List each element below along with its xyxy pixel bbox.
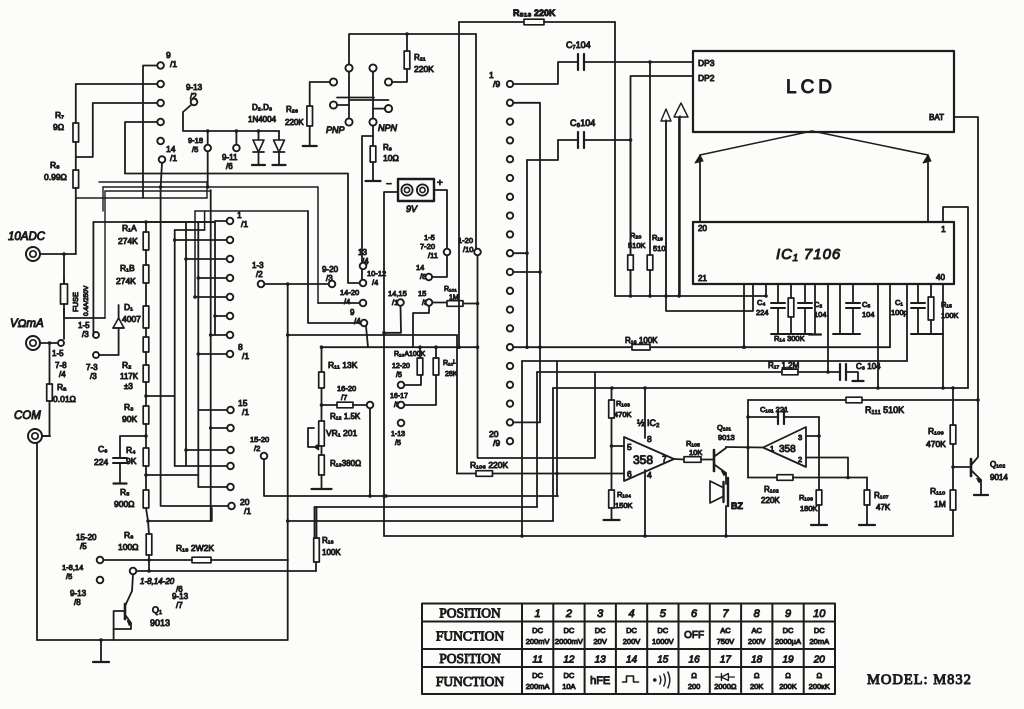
svg-text:DC: DC	[532, 626, 543, 635]
svg-text:DC: DC	[563, 671, 574, 680]
wire x318 drop	[317, 187, 319, 303]
svg-text:R₁₀₂: R₁₀₂	[764, 485, 779, 494]
svg-text:14,15: 14,15	[388, 289, 407, 298]
svg-text:/4: /4	[344, 297, 350, 306]
wire pin21 stub	[765, 284, 767, 296]
svg-text:4: 4	[647, 470, 652, 480]
contact 9-11/6	[233, 145, 240, 152]
svg-text:C₅: C₅	[862, 300, 870, 309]
ground bar under C1 R15	[911, 333, 943, 335]
svg-text:20: 20	[698, 224, 707, 233]
jack COM	[28, 429, 42, 443]
wire chain top y222	[125, 221, 215, 223]
wire pin5	[612, 445, 625, 447]
svg-text:2000µA: 2000µA	[775, 637, 801, 646]
svg-text:21: 21	[698, 274, 707, 283]
wire BAT to right vertical	[954, 117, 978, 400]
svg-text:200: 200	[688, 682, 701, 691]
svg-text:AC: AC	[751, 626, 762, 635]
wire bank3 stub	[211, 427, 228, 429]
jack 10ADC	[26, 247, 40, 261]
svg-text:6: 6	[691, 608, 698, 620]
switch contact bank1	[157, 100, 164, 107]
resistor R102 220K	[777, 475, 793, 481]
wire IC1 pin stub x878 to y388	[877, 284, 879, 388]
svg-text:7: 7	[722, 608, 729, 620]
svg-text:11: 11	[532, 655, 542, 666]
svg-text:R₂: R₂	[122, 360, 131, 370]
switch contact bank2	[227, 351, 234, 358]
wire x650 down (R19 feed)	[649, 62, 651, 255]
wire IC1 pin stub x815	[814, 284, 816, 334]
table positions/functions	[422, 604, 835, 695]
wire mesh y182	[99, 181, 207, 183]
switch contact 14/1	[159, 156, 166, 163]
wire top rail to x459	[475, 34, 477, 249]
svg-text:274K: 274K	[116, 276, 136, 286]
wire pin2 loop	[806, 458, 848, 478]
svg-text:R₁₀₅: R₁₀₅	[686, 439, 700, 448]
svg-text:1-8,14-20: 1-8,14-20	[140, 577, 175, 586]
svg-text:R₂₀: R₂₀	[630, 231, 641, 240]
switch contact bank3	[227, 484, 234, 491]
op-amp IC2a triangle	[624, 437, 674, 481]
svg-text:Ω: Ω	[691, 671, 697, 680]
wire x819 down	[818, 417, 820, 490]
table row2 functions	[526, 626, 829, 646]
svg-text:BAT: BAT	[929, 113, 944, 122]
switch contact col9	[507, 250, 513, 256]
svg-text:16-17: 16-17	[390, 393, 408, 400]
switch contact 15/1	[227, 407, 234, 414]
svg-text:DC: DC	[657, 626, 668, 635]
switch contact bank2	[227, 275, 234, 282]
svg-text:1-5: 1-5	[424, 233, 435, 242]
svg-text:15-20: 15-20	[76, 533, 97, 542]
svg-text:2000Ω: 2000Ω	[714, 682, 737, 691]
wire 9/4 left from x308	[308, 211, 361, 323]
wire y190 fuse feed	[105, 191, 211, 318]
battery 9V	[398, 179, 434, 201]
svg-text:9-20: 9-20	[322, 265, 339, 274]
svg-text:9-18: 9-18	[188, 136, 203, 145]
wire C101 loop left	[747, 400, 749, 478]
svg-text:FUSE: FUSE	[71, 292, 80, 312]
svg-text:900Ω: 900Ω	[114, 499, 135, 509]
svg-text:/2: /2	[254, 444, 260, 453]
svg-text:/7: /7	[341, 393, 347, 402]
svg-text:R₁B: R₁B	[120, 263, 135, 273]
svg-text:9K: 9K	[126, 456, 137, 466]
svg-text:R₁₀₁: R₁₀₁	[444, 286, 457, 293]
svg-text:/4: /4	[372, 278, 378, 287]
svg-text:IC₁ 7106: IC₁ 7106	[776, 246, 841, 263]
svg-text:9013: 9013	[718, 433, 735, 442]
switch contact bank3	[228, 503, 235, 510]
switch contact 1/1	[227, 218, 234, 225]
svg-text:R₁₆: R₁₆	[322, 536, 334, 545]
svg-text:R₄: R₄	[126, 445, 136, 455]
svg-text:200κK: 200κK	[809, 682, 830, 691]
svg-text:R₂₆: R₂₆	[286, 105, 298, 114]
switch contact col9	[507, 363, 513, 369]
wire mesh y211	[102, 187, 104, 211]
svg-text:7-8: 7-8	[55, 361, 67, 370]
svg-text:R₁₀₇: R₁₀₇	[874, 491, 889, 500]
svg-text:R₁₀₈: R₁₀₈	[799, 493, 813, 502]
svg-text:104: 104	[862, 310, 875, 319]
wire fuse node down to VΩmA contact	[63, 309, 65, 339]
svg-text:NPN: NPN	[378, 123, 398, 133]
wire mesh vertical x174	[174, 230, 176, 396]
svg-text:1: 1	[535, 608, 541, 620]
wire IC1 pin stub x828 to R17 line	[827, 284, 829, 372]
LCD-IC1 bus left diagonal	[700, 131, 812, 155]
svg-text:7-20: 7-20	[420, 242, 435, 251]
diode D3	[278, 131, 280, 140]
wire col9-2 down x540	[513, 103, 540, 423]
wire x287 down long	[287, 284, 289, 640]
wire R21 to socket	[392, 69, 407, 82]
svg-text:R₂₁: R₂₁	[414, 53, 426, 62]
wire x527	[526, 160, 528, 347]
sound symbol cell 15	[653, 678, 657, 682]
wire pin8	[644, 388, 646, 438]
svg-text:220K: 220K	[285, 118, 304, 127]
svg-text:/1: /1	[244, 506, 251, 516]
contact 7-3/3	[93, 352, 99, 358]
switch contact bank2	[227, 332, 234, 339]
svg-text:/2: /2	[256, 270, 263, 279]
svg-text:20V: 20V	[594, 637, 607, 646]
svg-text:DC: DC	[595, 626, 606, 635]
svg-text:180K: 180K	[800, 504, 818, 513]
svg-text:1-8,14: 1-8,14	[62, 563, 83, 572]
wire rail y361	[522, 360, 907, 362]
svg-text:/3: /3	[82, 330, 89, 339]
wire 14/8 right up	[432, 255, 447, 277]
wire rail y388	[553, 387, 968, 389]
svg-text:200V: 200V	[623, 637, 641, 646]
svg-text:1-5: 1-5	[78, 321, 90, 330]
svg-text:R₁₀ᴸ: R₁₀ᴸ	[443, 360, 456, 367]
potentiometer VR1 201	[319, 421, 325, 446]
resistor R14 300K (under IC1)	[788, 298, 794, 317]
svg-text:28K: 28K	[445, 371, 458, 378]
switch contact 9/1	[157, 62, 164, 69]
svg-text:470K: 470K	[926, 439, 946, 449]
svg-text:FUNCTION: FUNCTION	[436, 629, 505, 644]
svg-text:R₈: R₈	[50, 160, 60, 170]
wire bank2 stub	[198, 277, 226, 279]
svg-text:POSITION: POSITION	[439, 606, 501, 621]
svg-text:/1: /1	[241, 219, 248, 229]
svg-text:/5: /5	[192, 145, 198, 154]
wire R106 to pin6	[493, 473, 624, 475]
wire mesh y187	[103, 186, 318, 188]
svg-text:0.4A/250V: 0.4A/250V	[83, 285, 90, 316]
svg-text:R₁₀₉: R₁₀₉	[928, 426, 944, 436]
wire COM down to bottom rail	[36, 443, 38, 640]
wire mesh y198	[76, 188, 207, 198]
wire bank3 stub	[186, 449, 227, 451]
wire mesh y230	[175, 229, 205, 231]
svg-text:R₁₀₆ 220K: R₁₀₆ 220K	[470, 460, 509, 470]
svg-text:224: 224	[94, 457, 108, 467]
svg-text:4: 4	[628, 608, 634, 620]
wire x459 down to rail	[458, 22, 460, 347]
svg-text:13: 13	[595, 655, 607, 666]
svg-text:/1: /1	[242, 351, 249, 361]
svg-text:/1: /1	[170, 153, 177, 163]
svg-text:117K: 117K	[120, 372, 139, 381]
wire battery minus to ground rail	[384, 192, 398, 536]
svg-text:R₁₁₁ 510K: R₁₁₁ 510K	[865, 405, 904, 415]
wire 9/4 down to rail 347	[366, 326, 368, 347]
wire bank2 stub	[198, 353, 226, 355]
svg-text:20mA: 20mA	[810, 637, 830, 646]
switch contact bank2	[227, 294, 234, 301]
svg-text:/11: /11	[428, 251, 438, 260]
svg-text:DC: DC	[814, 626, 825, 635]
svg-text:5: 5	[627, 442, 632, 452]
svg-text:220K: 220K	[414, 64, 434, 74]
svg-text:Q₁₀₁: Q₁₀₁	[717, 423, 731, 432]
svg-text:Ω: Ω	[816, 671, 822, 680]
svg-text:VR₁ 201: VR₁ 201	[326, 428, 357, 438]
svg-text:½ IC₂: ½ IC₂	[637, 418, 660, 428]
svg-text:R₁₄ 300K: R₁₄ 300K	[774, 334, 805, 343]
table header texts	[436, 606, 505, 690]
contact 10-12/4	[360, 280, 367, 287]
svg-text:C₇104: C₇104	[566, 40, 591, 50]
svg-text:/6: /6	[226, 162, 233, 171]
switch contact bank1	[157, 138, 164, 145]
switch contact col9	[507, 382, 513, 388]
svg-text:90K: 90K	[122, 414, 137, 424]
switch contact col9	[507, 400, 513, 406]
switch contact bank1	[157, 81, 164, 88]
svg-text:DC: DC	[563, 626, 574, 635]
svg-text:C₃ 104: C₃ 104	[856, 362, 881, 371]
table row4 functions	[526, 671, 830, 691]
switch contact bank2	[227, 237, 234, 244]
svg-text:2: 2	[565, 608, 572, 620]
svg-text:C₆: C₆	[98, 444, 108, 454]
svg-text:hFE: hFE	[590, 675, 610, 687]
wire x314 down to R16	[314, 507, 316, 538]
svg-text:Q₁₀₂: Q₁₀₂	[990, 460, 1005, 469]
wire bank1-6 down	[161, 163, 162, 506]
fuse FUSE 0.4A/250V	[62, 252, 66, 256]
svg-text:9-13: 9-13	[186, 83, 203, 92]
svg-text:9-13: 9-13	[172, 592, 189, 601]
svg-text:/8: /8	[74, 598, 81, 607]
svg-text:/3: /3	[90, 372, 97, 381]
wire DP2 line	[631, 76, 694, 296]
svg-text:DC: DC	[783, 626, 794, 635]
wire 15-20/2 down to y496	[264, 459, 558, 496]
svg-text:1-3: 1-3	[252, 261, 264, 270]
node y475	[145, 466, 147, 490]
svg-text:6: 6	[627, 469, 632, 479]
resistor chain body R1C	[143, 306, 149, 328]
svg-text:15-20: 15-20	[250, 435, 269, 444]
switch contact col9	[507, 344, 513, 350]
svg-text:/1: /1	[242, 407, 249, 417]
svg-text:Ω: Ω	[785, 671, 791, 680]
wire mesh vertical x186	[185, 222, 187, 466]
svg-text:C₈104: C₈104	[570, 118, 595, 128]
svg-text:C₁: C₁	[895, 298, 903, 307]
wire y571	[136, 570, 316, 572]
switch contact bank2	[227, 256, 234, 263]
svg-text:8: 8	[647, 434, 652, 444]
svg-text:20: 20	[813, 655, 826, 666]
svg-text:R₁A: R₁A	[122, 223, 137, 233]
switch contact col9	[507, 81, 513, 87]
transistor socket PNP/NPN circles	[345, 64, 352, 71]
switch contact col9	[507, 419, 513, 425]
svg-text:19: 19	[782, 655, 794, 666]
svg-text:/5: /5	[66, 572, 72, 581]
svg-text:15: 15	[418, 289, 426, 298]
svg-text:1M: 1M	[934, 499, 946, 509]
svg-text:R₇: R₇	[55, 110, 64, 120]
wire y335 node line	[288, 334, 457, 336]
ground R13	[312, 488, 332, 490]
svg-text:LCD: LCD	[786, 77, 836, 98]
svg-text:R₅₁₃ 220K: R₅₁₃ 220K	[513, 8, 556, 18]
wire 14,15/1 down to y333	[384, 306, 401, 333]
svg-text:R₁₉: R₁₉	[652, 233, 663, 242]
svg-text:9-13: 9-13	[70, 589, 87, 598]
svg-text:/1: /1	[170, 59, 177, 69]
svg-text:15: 15	[657, 655, 669, 666]
wire mesh y211b	[195, 210, 308, 212]
svg-text:R₁₂ 1.5K: R₁₂ 1.5K	[330, 412, 361, 421]
svg-text:100Ω: 100Ω	[118, 542, 139, 552]
svg-text:200mV: 200mV	[526, 637, 550, 646]
wire bank2 stub	[211, 334, 227, 336]
wire y173 line to 10-12/4	[125, 174, 360, 284]
wire mesh vertical x195	[194, 211, 196, 297]
wire jack VΩmA to contact	[40, 342, 58, 344]
svg-text:9-11: 9-11	[222, 153, 238, 162]
wire 1-3/2 to 9-20/3	[264, 283, 328, 285]
svg-text:9: 9	[785, 608, 791, 620]
svg-text:0.01Ω: 0.01Ω	[53, 394, 76, 404]
svg-text:10A: 10A	[562, 682, 575, 691]
svg-text:2000mV: 2000mV	[555, 637, 583, 646]
wire 14-20/4 left from x318	[318, 302, 360, 304]
table row3 numbers	[532, 655, 825, 666]
wire link x204	[204, 211, 206, 230]
svg-text:R₁₀₄: R₁₀₄	[617, 490, 631, 499]
svg-text:Ω: Ω	[754, 671, 760, 680]
wire col9-11 to x540	[513, 271, 540, 273]
annunciator arrow big	[674, 103, 688, 296]
wire x522 down	[521, 361, 523, 536]
svg-text:3: 3	[798, 433, 802, 442]
wire x553 down	[552, 388, 554, 521]
wire y296 line	[615, 295, 766, 297]
switch contact col9	[507, 288, 513, 294]
wire 1-20/10 down x478	[478, 255, 596, 458]
svg-text:VΩmA: VΩmA	[10, 318, 44, 330]
wire x537 down	[536, 372, 538, 507]
svg-text:5: 5	[660, 608, 667, 620]
svg-text:±3: ±3	[124, 382, 133, 391]
svg-text:510: 510	[653, 244, 666, 253]
wire socket top rail y34	[349, 34, 476, 64]
wire rail y400 R111 line	[748, 399, 978, 401]
svg-text:10-12: 10-12	[367, 269, 386, 278]
switch contact bank1	[157, 119, 164, 126]
switch contact bank3	[227, 425, 234, 432]
wire mesh vertical x210	[210, 190, 212, 521]
wire y521 line	[288, 520, 553, 522]
svg-text:16: 16	[689, 655, 701, 666]
svg-text:14: 14	[416, 263, 424, 272]
wire 16-20/7 down to y496	[369, 408, 371, 496]
svg-text:9Ω: 9Ω	[53, 122, 64, 132]
svg-text:1-20: 1-20	[458, 236, 473, 245]
wire mesh y222	[93, 221, 215, 223]
svg-text:8: 8	[754, 608, 761, 620]
svg-text:2: 2	[798, 455, 802, 464]
contact 1-8,14-20/6	[130, 568, 137, 575]
svg-text:R₁₁ 13K: R₁₁ 13K	[328, 360, 358, 370]
socket cross wiring	[348, 72, 350, 119]
svg-text:MODEL: M832: MODEL: M832	[867, 672, 972, 688]
annunciator arrow small	[661, 109, 671, 296]
svg-text:DC: DC	[626, 626, 637, 635]
svg-text:47K: 47K	[876, 503, 891, 512]
svg-text:Rₐ: Rₐ	[57, 382, 67, 392]
wire NPN emitter to R9	[372, 126, 374, 146]
wire IC1 pin stub x744	[743, 284, 745, 347]
buzzer BZ	[725, 473, 727, 484]
switch contact col9	[507, 306, 513, 312]
switch contact col9	[507, 194, 513, 200]
svg-text:14-20: 14-20	[340, 288, 359, 297]
wire col9-1 to C7	[513, 62, 578, 84]
wire feedback bottom R102 line	[748, 477, 777, 479]
svg-text:1: 1	[770, 444, 774, 453]
svg-text:40: 40	[936, 273, 945, 282]
svg-text:4007: 4007	[122, 314, 141, 324]
svg-text:/4: /4	[59, 370, 66, 379]
wire pin4 down	[644, 470, 646, 536]
svg-text:358: 358	[779, 444, 796, 455]
svg-text:224: 224	[756, 308, 769, 317]
svg-text:PNP: PNP	[326, 125, 345, 135]
wire x557 down	[556, 361, 558, 496]
svg-text:AC: AC	[720, 626, 731, 635]
svg-text:R₁₀A100K: R₁₀A100K	[394, 351, 426, 358]
svg-text:10ADC: 10ADC	[8, 231, 46, 243]
svg-text:1-13: 1-13	[391, 431, 405, 438]
svg-text:0.99Ω: 0.99Ω	[44, 172, 67, 182]
jack VΩmA	[26, 336, 40, 350]
svg-text:470K: 470K	[614, 410, 632, 419]
svg-text:/10: /10	[463, 245, 473, 254]
switch contact col9	[507, 269, 513, 275]
svg-text:7: 7	[662, 454, 667, 464]
svg-text:14: 14	[626, 655, 638, 666]
svg-text:R₃: R₃	[124, 402, 134, 412]
